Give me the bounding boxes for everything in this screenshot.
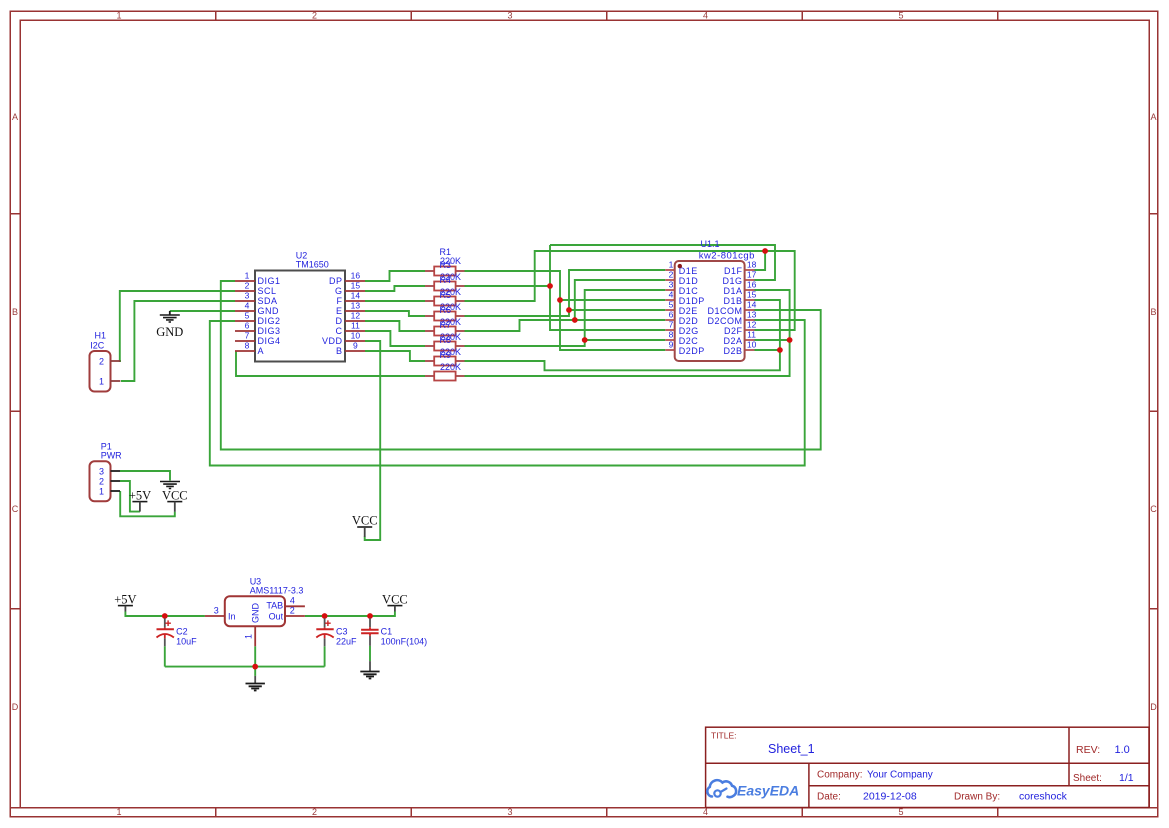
svg-text:9: 9 [669,340,674,350]
svg-text:2: 2 [99,477,104,487]
resistor R1 220K [425,247,465,276]
svg-text:PWR: PWR [101,450,122,460]
svg-text:22uF: 22uF [336,637,357,647]
svg-text:D2B: D2B [723,346,742,356]
svg-text:D1DP: D1DP [679,296,705,306]
svg-text:D1F: D1F [724,266,743,276]
svg-text:1: 1 [116,807,121,817]
svg-text:R5: R5 [440,290,452,300]
svg-text:5: 5 [898,11,903,21]
svg-text:C2: C2 [176,627,188,637]
svg-text:G: G [335,286,343,296]
svg-text:TAB: TAB [266,601,283,611]
wire ground rail [165,666,325,668]
svg-text:I2C: I2C [90,340,105,350]
svg-text:REV:: REV: [1076,744,1100,756]
svg-text:10: 10 [747,340,757,350]
svg-text:R8: R8 [440,335,452,345]
svg-text:C: C [12,504,19,514]
node C2 top [162,613,168,619]
svg-text:1: 1 [116,11,121,21]
svg-text:Your Company: Your Company [867,770,933,781]
svg-text:D: D [12,702,19,712]
svg-text:13: 13 [747,310,757,320]
svg-text:coreshock: coreshock [1019,791,1068,803]
wire DP: U2 pin16 to R row1 [365,271,425,281]
svg-text:D1G: D1G [722,276,742,286]
svg-text:2019-12-08: 2019-12-08 [863,791,917,803]
svg-text:10: 10 [351,331,361,341]
svg-text:H1: H1 [95,331,107,341]
svg-text:2: 2 [312,11,317,21]
wire U3 pin1 to ground [254,646,256,676]
wire F: U2 pin14 to R row3 [365,300,425,302]
svg-text:3: 3 [507,807,512,817]
svg-text:14: 14 [351,291,361,301]
svg-text:D: D [1150,702,1157,712]
node B-p10 [777,347,783,353]
TITLEBLOCK [706,727,1149,807]
svg-text:1.0: 1.0 [1115,744,1130,756]
svg-text:Company:: Company: [817,770,863,781]
svg-text:2: 2 [245,281,250,291]
wire E: U2 pin13 to R row4 [365,311,425,316]
wire +5V rail regulator [125,612,204,617]
svg-text:6: 6 [669,310,674,320]
svg-text:D2A: D2A [723,336,742,346]
wire A net right: R row8 to display pins 16 and 11 [465,290,790,376]
svg-text:SCL: SCL [258,286,277,296]
wire C2 lower [164,646,166,666]
wire E net right: R row4 to display pins 1 and 5 [465,270,666,316]
svg-text:4: 4 [703,11,708,21]
wire GND: U2 pin4 to ground [170,310,235,312]
svg-text:TM1650: TM1650 [296,260,329,270]
wire B: U2 pin9 to R row7 [365,351,425,361]
svg-text:R6: R6 [440,305,452,315]
wire G net right: R row2 to display pins 17 and 7 [465,285,551,287]
svg-text:16: 16 [351,271,361,281]
wire D: U2 pin12 to R row5 [365,321,425,331]
svg-text:2: 2 [290,605,295,615]
wire B net right: R row7 to display pins 15 and 10 [465,300,780,370]
IC U2 TM1650 [235,251,365,362]
svg-text:GND: GND [251,603,261,624]
svg-text:D2COM: D2COM [707,316,742,326]
svg-text:DIG4: DIG4 [258,336,281,346]
svg-text:U1.1: U1.1 [701,239,720,249]
svg-text:DP: DP [329,276,343,286]
svg-text:1: 1 [245,271,250,281]
svg-text:D2C: D2C [679,336,699,346]
svg-text:12: 12 [351,311,361,321]
svg-text:1: 1 [669,260,674,270]
svg-text:DIG1: DIG1 [258,276,281,286]
node A-p11 [787,337,793,343]
svg-text:Date:: Date: [817,792,841,803]
wire C: U2 pin11 to R row6 [365,331,425,346]
svg-text:220K: 220K [440,362,461,372]
svg-text:D1E: D1E [679,266,698,276]
wire F net right: R row3 to display pins 18 and 12 [465,251,766,301]
power +5V near P1 [129,489,151,512]
wire DIG1: U2 pin1 to U1.1 pin14 [221,281,821,450]
power VCC near P1 [162,489,188,512]
svg-text:A: A [1150,112,1156,122]
svg-text:5: 5 [898,807,903,817]
svg-text:C: C [1150,504,1157,514]
svg-text:EasyEDA: EasyEDA [737,783,799,799]
svg-text:4: 4 [290,596,295,606]
svg-text:F: F [337,296,343,306]
svg-text:D1C: D1C [679,286,699,296]
svg-text:1: 1 [99,487,104,497]
svg-text:R7: R7 [440,320,452,330]
svg-text:Sheet_1: Sheet_1 [768,742,815,756]
resistor R3 220K [425,260,465,290]
svg-text:VCC: VCC [352,514,378,528]
svg-text:D1B: D1B [723,296,742,306]
resistor R5 220K [425,290,465,320]
power VCC regulator output [382,593,408,612]
svg-text:2: 2 [669,270,674,280]
svg-text:+5V: +5V [129,489,151,503]
svg-text:R4: R4 [440,275,452,285]
svg-text:D1D: D1D [679,276,699,286]
svg-text:TITLE:: TITLE: [711,731,737,741]
svg-text:D1A: D1A [723,286,742,296]
wire SDA: U2 pin3 to H1 pin1 [121,301,235,381]
svg-text:In: In [228,612,236,622]
svg-text:15: 15 [351,281,361,291]
svg-text:4: 4 [245,301,250,311]
resistor R7 220K [425,320,465,350]
svg-text:4: 4 [669,290,674,300]
resistor R6 220K [425,305,465,335]
svg-text:11: 11 [351,321,360,331]
svg-text:11: 11 [747,330,756,340]
svg-text:B: B [336,346,343,356]
svg-text:GND: GND [258,306,280,316]
wire DP net right: R1 to display pins 4 and 9 [465,271,666,350]
svg-text:3: 3 [214,605,219,615]
svg-text:Drawn By:: Drawn By: [954,792,1000,803]
svg-text:16: 16 [747,280,757,290]
wire P1 pin2 to +5V [120,481,140,512]
node E-p5 [566,307,572,313]
svg-text:kw2-801cgb: kw2-801cgb [699,251,755,262]
wire G: U2 pin15 to R row2 [365,286,425,291]
svg-text:4: 4 [703,807,708,817]
svg-text:Sheet:: Sheet: [1073,773,1102,784]
wire D net right: R row5 to display pins 2 and 6 [465,320,575,331]
power VCC mid (VDD net) [352,514,378,538]
svg-text:C: C [336,326,343,336]
resistor R8 220K [425,335,465,365]
svg-text:VCC: VCC [382,593,408,607]
node G-r2 [547,283,553,289]
wire A: U2 pin8 to R row8 [236,351,425,376]
svg-text:5: 5 [245,311,250,321]
connector H1 I2C [90,331,121,392]
svg-text:7: 7 [245,331,250,341]
svg-text:7: 7 [669,320,674,330]
node D-p6 [572,317,578,323]
svg-text:DIG2: DIG2 [258,316,281,326]
svg-text:15: 15 [747,290,757,300]
resistor R9 220K [425,350,465,380]
svg-text:3: 3 [245,291,250,301]
wire C1 lower [369,646,371,661]
svg-text:D2E: D2E [679,306,698,316]
wire P1 pin3 to ground [120,471,170,481]
svg-text:GND: GND [156,325,183,339]
svg-text:9: 9 [353,341,358,351]
svg-text:R9: R9 [440,350,452,360]
node C1 top [367,613,373,619]
svg-text:3: 3 [507,11,512,21]
power +5V regulator input [114,593,136,612]
wire C3 lower [324,646,326,666]
svg-text:10uF: 10uF [176,637,197,647]
svg-text:D: D [336,316,343,326]
svg-text:C1: C1 [381,627,393,637]
wire VDD to VCC [365,341,381,540]
svg-text:2: 2 [99,357,104,367]
svg-text:2: 2 [312,807,317,817]
svg-text:8: 8 [245,341,250,351]
node F [762,248,768,254]
svg-text:13: 13 [351,301,361,311]
svg-text:17: 17 [747,270,757,280]
svg-text:C3: C3 [336,627,348,637]
ground earth below U3 pin1 [246,676,265,691]
svg-text:12: 12 [747,320,757,330]
wire C net right: R row6 to display pins 3 and 8 [465,340,585,346]
svg-text:B: B [12,307,18,317]
svg-text:DIG3: DIG3 [258,326,281,336]
svg-text:3: 3 [99,467,104,477]
wire DIG2: U2 pin5 to U1.1 pin13 [210,320,805,466]
capacitor C1 100nF [361,618,427,646]
logo EasyEDA [707,780,799,798]
svg-text:A: A [12,112,18,122]
svg-text:100nF(104): 100nF(104) [381,637,428,647]
svg-text:1: 1 [99,377,104,387]
regulator U3 AMS1117-3.3 [205,577,305,647]
svg-text:D2F: D2F [724,326,743,336]
svg-text:D1COM: D1COM [707,306,742,316]
wire SCL: U2 pin2 to H1 pin2 [120,291,235,361]
svg-text:D2D: D2D [679,316,699,326]
wire P1 pin1 to VCC [120,491,175,516]
svg-text:14: 14 [747,300,757,310]
resistor R4 220K [425,275,465,305]
node DP-p4 [557,297,563,303]
display U1.1 kw2-801cgb [665,239,756,361]
node gnd rail [252,664,258,670]
ground earth near P1 [160,482,180,489]
svg-text:3: 3 [669,280,674,290]
node C3 top [322,613,328,619]
capacitor C2 10uF [157,618,198,646]
svg-text:B: B [1150,307,1156,317]
svg-text:1: 1 [243,634,253,639]
svg-text:VCC: VCC [162,489,188,503]
svg-text:5: 5 [669,300,674,310]
svg-text:+5V: +5V [114,593,136,607]
svg-text:E: E [336,306,343,316]
svg-text:6: 6 [245,321,250,331]
svg-text:VDD: VDD [322,336,343,346]
svg-text:D2G: D2G [679,326,699,336]
svg-text:1/1: 1/1 [1119,772,1134,784]
svg-text:Out: Out [269,612,284,622]
svg-text:SDA: SDA [258,296,278,306]
wire U3 out to VCC [305,612,395,617]
svg-text:A: A [258,346,265,356]
svg-text:D2DP: D2DP [679,346,705,356]
svg-text:R3: R3 [440,260,452,270]
svg-text:8: 8 [669,330,674,340]
svg-text:AMS1117-3.3: AMS1117-3.3 [250,586,304,596]
ground GND near U2 [156,311,183,339]
capacitor C3 22uF [316,618,357,646]
node C-p8 [582,337,588,343]
ground earth below C1 [360,661,379,678]
connector P1 PWR [90,442,123,502]
